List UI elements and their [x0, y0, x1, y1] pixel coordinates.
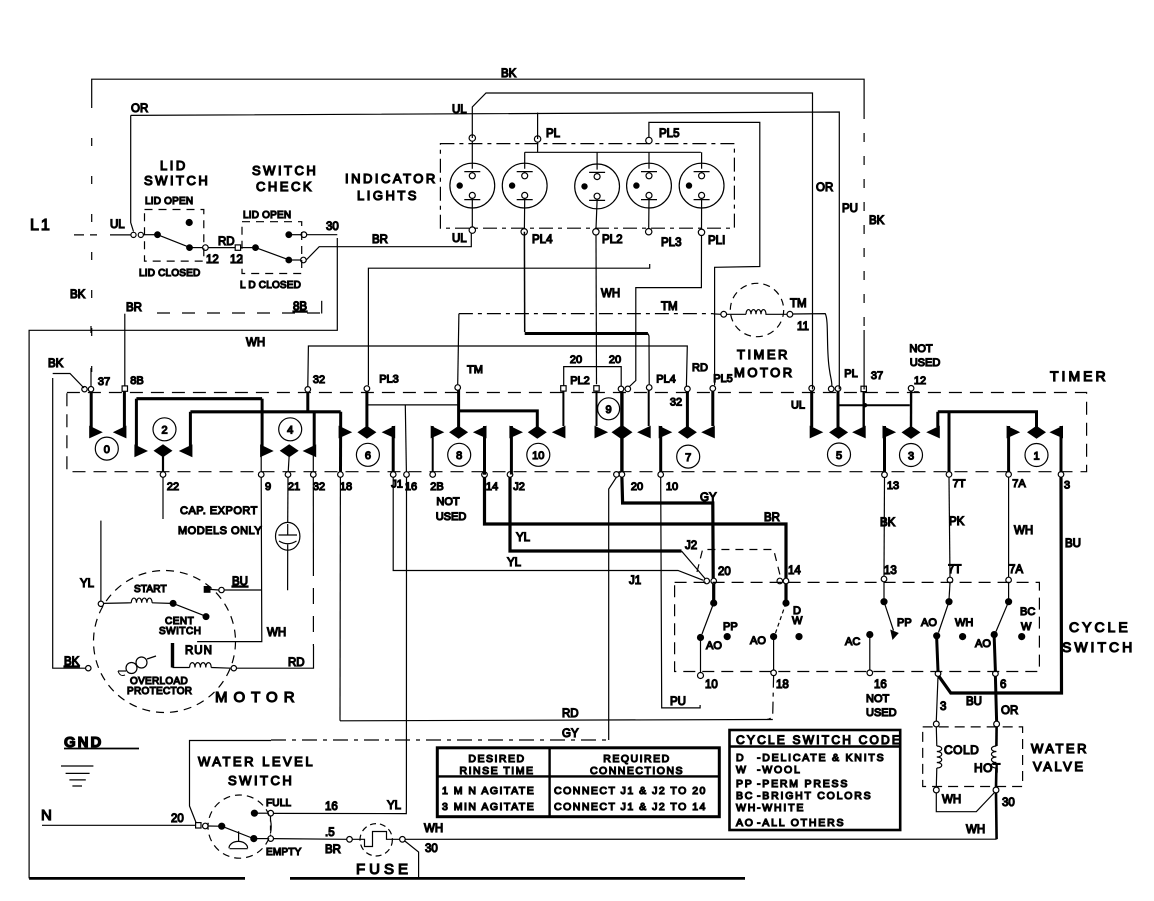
svg-text:PP: PP: [897, 617, 912, 629]
timer T1: [67, 343, 1109, 523]
svg-text:2: 2: [161, 425, 167, 437]
svg-text:W: W: [792, 615, 803, 627]
svg-text:20: 20: [718, 566, 731, 578]
svg-text:GY: GY: [700, 492, 717, 504]
cam 7: [659, 391, 715, 472]
lamp PL3: [627, 152, 672, 235]
svg-text:PROTECTOR: PROTECTOR: [127, 686, 192, 697]
svg-text:AO: AO: [736, 817, 755, 829]
svg-text:8B: 8B: [293, 301, 307, 313]
svg-text:PL: PL: [546, 128, 561, 140]
svg-text:10: 10: [532, 450, 544, 462]
svg-text:0: 0: [104, 444, 110, 456]
svg-text:SWITCH: SWITCH: [144, 173, 210, 188]
water level switch S4: [41, 741, 402, 859]
svg-text:FULL: FULL: [266, 798, 291, 809]
wire 18 dashdot down: [766, 676, 774, 720]
motor M1: [64, 521, 301, 713]
wire BK top: [70, 68, 885, 389]
bus A: [136, 397, 262, 400]
cent switch: [170, 601, 176, 607]
svg-text:AC: AC: [845, 636, 860, 648]
svg-text:12: 12: [206, 254, 219, 266]
wire BK to 37: [48, 326, 91, 668]
svg-text:1: 1: [1033, 450, 1039, 462]
svg-text:J1: J1: [629, 575, 641, 587]
svg-text:UL: UL: [110, 219, 125, 231]
svg-text:L D CLOSED: L D CLOSED: [240, 280, 301, 291]
svg-text:4: 4: [287, 425, 293, 437]
timer top terminals: [82, 385, 919, 393]
coil: [727, 313, 787, 315]
svg-text:12: 12: [914, 375, 926, 387]
table rinse time: [437, 748, 719, 817]
wire PL4 to timer: [523, 232, 525, 332]
empty contact: [268, 836, 274, 842]
svg-text:BC: BC: [1020, 606, 1035, 618]
svg-text:CYCLE: CYCLE: [1069, 619, 1131, 635]
wire OR top: [131, 103, 858, 389]
table cycle switch code: [730, 730, 903, 830]
svg-text:3: 3: [1064, 480, 1070, 492]
wire RD bottom: [340, 708, 773, 721]
pole 7A: [975, 583, 1035, 671]
cam 10: [509, 391, 565, 474]
cam 9: [595, 390, 651, 471]
svg-text:20: 20: [570, 354, 582, 366]
svg-text:18: 18: [776, 679, 789, 691]
svg-text:PL2: PL2: [570, 375, 590, 387]
wire PL3-TM link: [367, 404, 459, 406]
svg-text:TM: TM: [790, 298, 807, 310]
svg-text:BR: BR: [126, 302, 142, 314]
pole 14: [750, 584, 803, 670]
terminal out: [203, 245, 209, 251]
svg-text:RD: RD: [218, 236, 235, 248]
fuse F1: [347, 823, 997, 878]
wire PL1 to 20: [630, 236, 702, 387]
svg-text:GY: GY: [562, 728, 579, 740]
terminal PL: [534, 136, 540, 142]
contact BU: [204, 587, 210, 593]
svg-text:PU: PU: [842, 203, 858, 215]
svg-text:CONNECT J1 & J2 TO 14: CONNECT J1 & J2 TO 14: [554, 801, 707, 813]
svg-text:PL: PL: [844, 368, 857, 380]
svg-text:NOT: NOT: [866, 693, 890, 705]
indicator lights PL: [345, 122, 760, 386]
svg-text:RUN: RUN: [185, 645, 213, 657]
overload protector: [118, 656, 156, 676]
svg-text:TIMER: TIMER: [1050, 368, 1109, 384]
wire 18 down: [339, 477, 341, 721]
arm: [222, 826, 252, 838]
svg-text:2B: 2B: [430, 481, 443, 493]
cam 5: [810, 391, 866, 466]
svg-text:CONNECTIONS: CONNECTIONS: [590, 765, 684, 777]
wire PL2 to timer: [595, 235, 598, 384]
cam 8: [431, 390, 487, 475]
svg-text:WH: WH: [424, 823, 443, 835]
svg-text:AO: AO: [921, 617, 937, 629]
svg-text:BC: BC: [736, 790, 754, 802]
cam 4: [260, 399, 316, 472]
svg-text:COLD: COLD: [944, 743, 979, 757]
wire 7T riser: [948, 412, 951, 472]
svg-text:30: 30: [1002, 797, 1015, 809]
pole 13: [845, 582, 912, 670]
svg-text:USED: USED: [910, 357, 941, 369]
svg-text:7: 7: [685, 452, 691, 464]
svg-text:UL: UL: [452, 233, 467, 245]
diaphragm: [238, 831, 240, 841]
cam 6: [339, 391, 396, 472]
svg-text:BR: BR: [325, 844, 341, 856]
svg-text:PP: PP: [736, 778, 754, 790]
svg-text:21: 21: [288, 481, 300, 493]
svg-text:6: 6: [365, 450, 371, 462]
svg-text:L1: L1: [30, 217, 52, 234]
hot coil: [995, 727, 998, 746]
svg-text:WH: WH: [955, 617, 973, 629]
wire 20 down: [609, 477, 617, 740]
terminal 30 out: [301, 257, 307, 263]
svg-text:LID CLOSED: LID CLOSED: [139, 268, 200, 279]
svg-text:14: 14: [486, 481, 498, 493]
ground: [61, 734, 139, 786]
svg-text:12: 12: [230, 254, 243, 266]
svg-text:10: 10: [666, 481, 678, 493]
svg-text:BU: BU: [1065, 538, 1081, 550]
wire BR to UL lamp: [306, 233, 471, 260]
svg-text:-PERM PRESS: -PERM PRESS: [757, 778, 849, 790]
cam 0: [89, 391, 126, 460]
wire PL drop to OR line: [537, 113, 539, 139]
wire WH to valve: [405, 838, 996, 840]
svg-text:5: 5: [836, 450, 842, 462]
lamp PL4: [502, 152, 547, 235]
svg-text:REQUIRED: REQUIRED: [603, 753, 670, 765]
bus D: [459, 411, 538, 427]
cycle switch S3: [675, 550, 1136, 720]
contact arm: [158, 235, 189, 247]
svg-text:PL5: PL5: [659, 128, 679, 140]
svg-text:SWITCH: SWITCH: [252, 163, 318, 178]
terminal PL5: [646, 137, 652, 143]
jumper 20-20 bracket: [564, 367, 622, 387]
svg-text:PP: PP: [723, 621, 738, 633]
wire RD link: [208, 247, 235, 249]
svg-text:J2: J2: [513, 481, 525, 493]
svg-text:PL5: PL5: [713, 373, 733, 385]
svg-text:7A: 7A: [1012, 478, 1026, 490]
svg-text:TM: TM: [467, 364, 483, 376]
svg-text:LID OPEN: LID OPEN: [243, 210, 291, 221]
svg-text:BK: BK: [880, 517, 896, 529]
wire N: [42, 824, 195, 826]
svg-text:PL2: PL2: [602, 234, 622, 246]
svg-text:SWITCH: SWITCH: [228, 773, 294, 788]
wire J1: [393, 477, 703, 587]
svg-text:11: 11: [797, 321, 809, 333]
wire 3 to cold: [936, 676, 938, 721]
bus C: [938, 412, 1037, 427]
wire PL bus: [525, 142, 701, 153]
svg-text:LIGHTS: LIGHTS: [357, 188, 419, 203]
lamp PL1: [679, 152, 724, 235]
svg-text:DESIRED: DESIRED: [468, 753, 525, 765]
wire TM terminal drop: [458, 314, 459, 385]
svg-text:PL3: PL3: [661, 237, 681, 249]
wire GY dash: [271, 728, 608, 740]
svg-text:N: N: [41, 807, 52, 824]
svg-text:AO: AO: [975, 638, 991, 650]
svg-text:WATER LEVEL: WATER LEVEL: [198, 754, 315, 769]
bottom terminals: [933, 787, 939, 793]
svg-text:PLI: PLI: [708, 235, 725, 247]
terminals bottom: [698, 673, 704, 679]
svg-text:TIMER: TIMER: [737, 347, 790, 362]
svg-text:8B: 8B: [130, 375, 143, 387]
svg-text:WH: WH: [1014, 525, 1033, 537]
svg-text:USED: USED: [436, 511, 467, 523]
wire 7T PK: [949, 477, 965, 577]
svg-text:RINSE TIME: RINSE TIME: [460, 765, 535, 777]
svg-text:-WOOL: -WOOL: [757, 764, 802, 776]
svg-text:14: 14: [788, 565, 801, 577]
cam 3: [883, 391, 940, 472]
svg-text:OR: OR: [1001, 705, 1018, 717]
svg-text:WH: WH: [601, 288, 620, 300]
svg-text:UL: UL: [791, 399, 805, 411]
svg-text:8: 8: [456, 450, 462, 462]
svg-text:D: D: [736, 752, 745, 764]
wire 16 drop: [405, 405, 406, 472]
lamp PL2: [575, 152, 620, 235]
svg-text:20: 20: [631, 481, 643, 493]
svg-text:PU: PU: [670, 696, 686, 708]
link dashes: [270, 817, 272, 836]
wire PL5 loop: [649, 122, 760, 385]
svg-text:WH: WH: [267, 627, 286, 639]
svg-text:16: 16: [325, 801, 338, 813]
svg-text:YL: YL: [507, 557, 522, 569]
pole 20: [698, 584, 738, 673]
svg-text:30: 30: [326, 221, 339, 233]
wire 32 to RD motor: [237, 477, 314, 669]
svg-text:NOT: NOT: [436, 496, 460, 508]
wire J2 YL thick: [510, 477, 705, 578]
svg-text:32: 32: [313, 374, 325, 386]
svg-text:20: 20: [171, 813, 184, 825]
svg-text:BK: BK: [869, 215, 885, 227]
timer bottom terminals: [160, 472, 1064, 478]
contact arm: [256, 248, 288, 260]
svg-text:7T: 7T: [953, 478, 966, 490]
svg-text:.5: .5: [325, 827, 335, 839]
svg-text:13: 13: [884, 565, 897, 577]
svg-text:EMPTY: EMPTY: [266, 847, 302, 858]
svg-text:1 M N AGITATE: 1 M N AGITATE: [442, 785, 535, 797]
svg-text:-WHITE: -WHITE: [757, 802, 805, 814]
svg-text:AO: AO: [706, 640, 722, 652]
svg-text:W: W: [1021, 621, 1032, 633]
wire TM out: [793, 314, 832, 387]
wire wh jumper: [936, 793, 994, 812]
svg-text:30: 30: [425, 843, 438, 855]
svg-text:WH: WH: [966, 824, 985, 836]
svg-text:-DELICATE & KNITS: -DELICATE & KNITS: [757, 752, 885, 764]
svg-text:MOTOR: MOTOR: [215, 689, 301, 706]
wire 22 stub: [162, 477, 164, 519]
svg-text:BK: BK: [501, 68, 517, 80]
svg-text:CAP. EXPORT: CAP. EXPORT: [180, 505, 258, 517]
switch check S2: [235, 163, 471, 291]
wire empty to fuse: [274, 838, 347, 841]
svg-text:10: 10: [705, 679, 718, 691]
timer top labels: [98, 343, 940, 411]
cam 1: [1007, 426, 1063, 472]
svg-text:FUSE: FUSE: [356, 861, 412, 878]
svg-text:22: 22: [167, 481, 179, 493]
svg-text:WH: WH: [246, 337, 265, 349]
wire YL: [100, 521, 102, 601]
svg-text:9: 9: [265, 481, 271, 493]
contact common: [155, 232, 161, 238]
full contact: [251, 810, 257, 816]
svg-text:WH: WH: [942, 794, 961, 806]
svg-text:6: 6: [1000, 679, 1006, 691]
svg-text:3 MIN AGITATE: 3 MIN AGITATE: [442, 801, 535, 813]
svg-text:TM: TM: [661, 301, 678, 313]
timer bottom labels: [167, 478, 1070, 523]
svg-text:RD: RD: [562, 708, 579, 720]
dashed bracket over 20/14: [697, 550, 781, 578]
wire 7A WH: [1009, 477, 1034, 577]
capacitor C1: [276, 477, 300, 590]
bus E: [838, 404, 909, 406]
svg-text:7T: 7T: [948, 564, 961, 576]
contact common: [253, 245, 259, 251]
svg-text:BK: BK: [48, 358, 64, 370]
cam 2: [134, 399, 192, 472]
wire fuse to border: [405, 841, 419, 878]
svg-text:BR: BR: [372, 234, 388, 246]
svg-text:RD: RD: [692, 362, 708, 374]
svg-text:UL: UL: [452, 104, 467, 116]
svg-text:SWITCH: SWITCH: [159, 626, 201, 637]
svg-text:37: 37: [98, 376, 110, 388]
wire TM dash line: [459, 313, 714, 315]
wire 32top to RD: [308, 346, 688, 387]
svg-text:NOT: NOT: [909, 343, 933, 355]
wire 20 to GY: [622, 477, 717, 578]
wire 32 top drop to bus B: [306, 392, 309, 412]
svg-text:32: 32: [313, 481, 325, 493]
wire PL3 to timer: [368, 264, 649, 385]
lamp UL: [450, 135, 495, 234]
svg-text:20: 20: [609, 354, 621, 366]
svg-text:VALVE: VALVE: [1033, 759, 1085, 774]
bus B: [190, 410, 340, 413]
svg-text:START: START: [134, 584, 167, 595]
svg-text:BR: BR: [764, 512, 780, 524]
cold coil: [935, 727, 938, 746]
lid switch S1: [139, 158, 243, 279]
svg-text:MODELS ONLY: MODELS ONLY: [178, 525, 262, 537]
wire 6 OR to hot: [995, 676, 996, 721]
svg-text:INDICATOR: INDICATOR: [345, 171, 438, 186]
svg-text:18: 18: [340, 481, 352, 493]
svg-text:LID OPEN: LID OPEN: [145, 196, 193, 207]
contact lid open throw: [286, 232, 292, 238]
svg-text:YL: YL: [516, 532, 531, 544]
svg-text:USED: USED: [866, 707, 897, 719]
terminals top: [704, 578, 710, 584]
svg-text:AO: AO: [750, 635, 766, 647]
svg-text:WATER: WATER: [1031, 741, 1089, 756]
svg-text:3: 3: [940, 701, 946, 713]
svg-text:HOT: HOT: [974, 761, 1001, 775]
svg-text:16: 16: [874, 679, 887, 691]
svg-text:PL4: PL4: [532, 234, 553, 246]
wire 13 BK: [880, 478, 896, 577]
svg-text:BK: BK: [64, 656, 80, 668]
contact lid open throw: [186, 220, 192, 226]
svg-text:7A: 7A: [1009, 564, 1023, 576]
svg-text:WH: WH: [736, 802, 757, 814]
wire hot common down: [995, 793, 998, 839]
wire 9 to motor: [197, 477, 286, 641]
wire 14 BR thick: [485, 478, 787, 579]
svg-text:BU: BU: [232, 576, 248, 588]
svg-text:PL4: PL4: [656, 374, 676, 386]
svg-text:PL3: PL3: [379, 374, 399, 386]
terminal in: [235, 245, 240, 250]
svg-text:OR: OR: [816, 182, 833, 194]
svg-text:32: 32: [670, 396, 682, 408]
svg-text:BK: BK: [70, 289, 86, 301]
wire 3 BU thick: [939, 477, 1081, 708]
svg-text:J2: J2: [685, 540, 697, 552]
svg-text:CHECK: CHECK: [256, 179, 314, 194]
node L1: [30, 115, 143, 237]
wire UL lamp feed: [452, 93, 833, 389]
wire BR to 8B: [125, 301, 322, 386]
svg-text:37: 37: [871, 370, 883, 382]
svg-text:MOTOR: MOTOR: [734, 365, 795, 380]
harness bracket: [190, 741, 272, 823]
svg-text:YL: YL: [387, 800, 402, 812]
svg-text:-BRIGHT COLORS: -BRIGHT COLORS: [757, 790, 872, 802]
wire left border / N return: [29, 238, 745, 878]
wire 16 to water level: [274, 477, 407, 813]
svg-text:BU: BU: [966, 696, 982, 708]
water valve V1: [923, 676, 1089, 839]
svg-text:CONNECT J1 & J2 TO 20: CONNECT J1 & J2 TO 20: [554, 785, 707, 797]
pole 7T: [921, 583, 973, 671]
svg-text:3: 3: [908, 450, 914, 462]
svg-text:CYCLE SWITCH CODE: CYCLE SWITCH CODE: [736, 733, 902, 747]
svg-text:-ALL OTHERS: -ALL OTHERS: [757, 817, 845, 829]
wire 30: [307, 234, 338, 236]
wire 10 PU: [661, 477, 700, 708]
svg-text:RD: RD: [288, 657, 305, 669]
svg-text:SWITCH: SWITCH: [1062, 639, 1135, 655]
svg-text:LID: LID: [160, 158, 188, 173]
svg-text:13: 13: [887, 480, 899, 492]
svg-text:9: 9: [606, 404, 612, 416]
svg-text:OR: OR: [131, 103, 148, 115]
